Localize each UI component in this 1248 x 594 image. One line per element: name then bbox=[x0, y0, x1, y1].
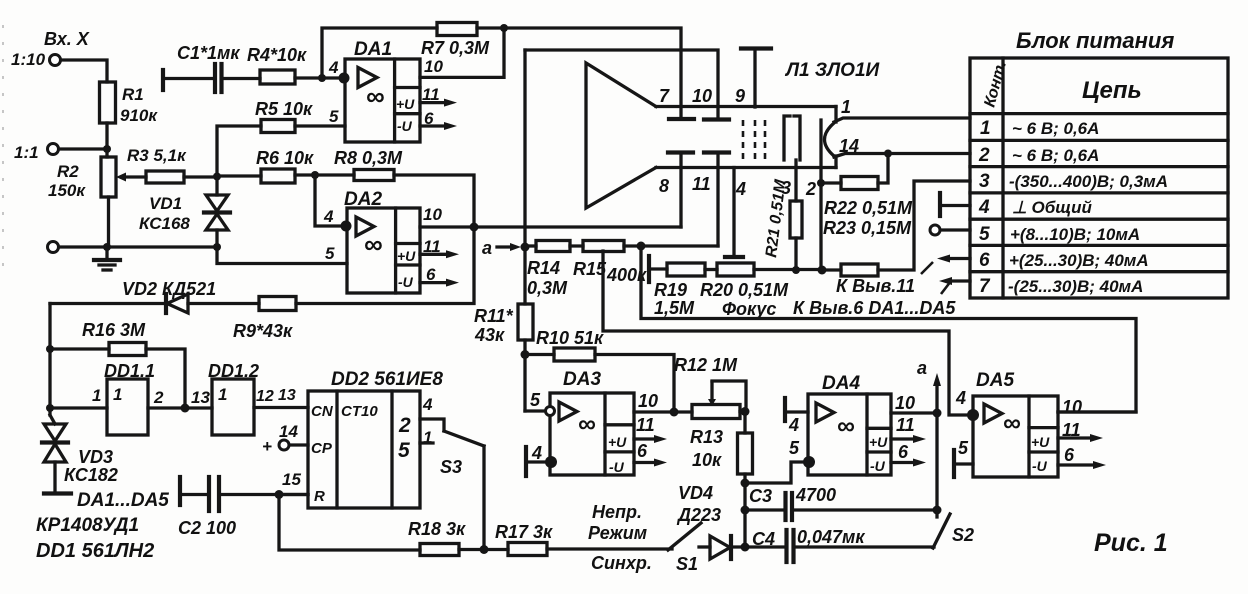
svg-text:С2 100: С2 100 bbox=[178, 518, 236, 538]
svg-text:1:10: 1:10 bbox=[11, 50, 46, 69]
svg-text:R2: R2 bbox=[57, 162, 79, 181]
svg-text:11: 11 bbox=[896, 415, 915, 435]
wire node down to DA2 pin 4 bbox=[315, 175, 347, 226]
resistor R7 0,3М bbox=[437, 23, 477, 36]
svg-text:10: 10 bbox=[638, 391, 658, 411]
svg-text:a: a bbox=[482, 238, 492, 258]
svg-text:Непр.: Непр. bbox=[592, 502, 642, 522]
svg-text:6: 6 bbox=[898, 442, 909, 462]
wire R16 right down to DD1.1 out bbox=[146, 349, 185, 408]
resistor R19 1,5М bbox=[649, 267, 667, 270]
svg-text:Режим: Режим bbox=[588, 523, 647, 543]
svg-text:-U: -U bbox=[397, 118, 413, 134]
svg-text:2: 2 bbox=[805, 179, 816, 199]
wire junction to plate 11 bbox=[641, 244, 718, 247]
svg-text:+U: +U bbox=[396, 96, 415, 112]
svg-text:10: 10 bbox=[424, 57, 443, 76]
svg-text:~ 6 В; 0,6А: ~ 6 В; 0,6А bbox=[1012, 146, 1099, 165]
resistor R13 10к bbox=[738, 433, 753, 474]
node junction C4/VD4 bbox=[741, 543, 750, 552]
svg-text:13: 13 bbox=[191, 388, 210, 407]
node a junction DA4 out bbox=[933, 409, 942, 418]
resistor R4* 10к bbox=[260, 70, 295, 84]
wire VD1 node to DA2 pin5 bbox=[217, 247, 347, 264]
svg-text:С1*1мк: С1*1мк bbox=[177, 43, 240, 63]
svg-text:CN: CN bbox=[311, 403, 334, 420]
resistor R22 0,51М bbox=[841, 177, 878, 190]
resistor R6 10к bbox=[217, 174, 261, 177]
wire 1:1 to rail bbox=[59, 147, 107, 150]
node junction VD1 bottom bbox=[213, 243, 221, 251]
resistor R5 10к bbox=[261, 120, 295, 133]
svg-text:2: 2 bbox=[153, 388, 164, 407]
svg-text:Фокус: Фокус bbox=[722, 299, 776, 319]
wire R2 wiper to R3 bbox=[122, 175, 146, 178]
svg-text:S2: S2 bbox=[952, 525, 974, 545]
svg-text:+U: +U bbox=[397, 248, 416, 264]
resistor R23 0,15М bbox=[841, 264, 878, 276]
svg-text:R20 0,51М: R20 0,51М bbox=[700, 280, 789, 300]
svg-text:К Выв.11: К Выв.11 bbox=[836, 276, 915, 296]
wire R9 right up to DA2 out node bbox=[296, 227, 474, 304]
svg-text:5: 5 bbox=[325, 244, 335, 263]
svg-text:Блок питания: Блок питания bbox=[1016, 28, 1174, 53]
svg-text:2: 2 bbox=[398, 414, 411, 437]
switch S1 blade bbox=[668, 523, 701, 550]
arrow row 7 supply bbox=[950, 279, 970, 282]
svg-text:6: 6 bbox=[979, 250, 990, 271]
svg-text:1: 1 bbox=[218, 385, 227, 404]
arrow row 6 supply bbox=[948, 257, 970, 260]
wire R2 bottom to ground wire bbox=[107, 197, 110, 247]
svg-text:5: 5 bbox=[958, 438, 969, 458]
resistor R16 3М bbox=[50, 347, 109, 350]
svg-text:R23 0,15М: R23 0,15М bbox=[823, 218, 912, 238]
resistor R11* 43к bbox=[518, 304, 533, 340]
svg-text:+: + bbox=[262, 437, 272, 456]
diode VD3 КС182 (symmetric zener) bbox=[50, 415, 55, 424]
svg-text:DD2 561ИЕ8: DD2 561ИЕ8 bbox=[331, 369, 443, 390]
wire left rail top bbox=[48, 304, 51, 416]
node junction R18/R17/S3 bbox=[480, 545, 489, 554]
power supply connector table bbox=[970, 58, 1228, 298]
svg-text:∞: ∞ bbox=[578, 410, 596, 438]
svg-text:-U: -U bbox=[609, 459, 625, 475]
svg-text:CP: CP bbox=[311, 440, 333, 457]
node junction R16 left bbox=[46, 345, 54, 353]
wire R15 wiper rail to DA5 pin 4 bbox=[603, 251, 967, 415]
svg-text:1: 1 bbox=[113, 385, 122, 404]
svg-text:R17 3к: R17 3к bbox=[495, 522, 553, 542]
node junction C3 right on S2 column bbox=[933, 506, 942, 515]
svg-text:4: 4 bbox=[788, 415, 799, 435]
node junction R4/R7 bbox=[318, 74, 326, 82]
wire junction up to R5 bbox=[217, 126, 261, 177]
svg-text:R: R bbox=[314, 488, 325, 505]
resistor R18 3к bbox=[420, 544, 459, 556]
svg-text:R12 1М: R12 1М bbox=[674, 355, 738, 375]
resistor R14 0,3М bbox=[525, 244, 536, 247]
heater cathode arc bbox=[825, 123, 835, 156]
svg-text:С3: С3 bbox=[749, 486, 772, 506]
svg-text:150к: 150к bbox=[48, 181, 86, 200]
svg-text:7: 7 bbox=[979, 276, 991, 297]
node junction C3 left bbox=[741, 506, 750, 515]
svg-text:DA1...DA5: DA1...DA5 bbox=[77, 490, 169, 511]
wire S3 down to R17/R18 node bbox=[482, 446, 485, 550]
leader dashes to rows 6,7 bbox=[921, 262, 933, 274]
wire to DA4 pin 5 bbox=[745, 462, 803, 483]
svg-text:910к: 910к bbox=[120, 106, 158, 125]
svg-text:7: 7 bbox=[659, 86, 670, 106]
svg-text:8: 8 bbox=[659, 176, 669, 196]
svg-text:11: 11 bbox=[636, 415, 655, 435]
svg-text:-U: -U bbox=[1032, 458, 1048, 474]
svg-text:VD2 КД521: VD2 КД521 bbox=[122, 279, 216, 299]
svg-text:R3 5,1к: R3 5,1к bbox=[127, 146, 187, 165]
wire R1 bottom bbox=[105, 123, 108, 157]
resistor R8 0,3М bbox=[354, 170, 394, 181]
svg-text:43к: 43к bbox=[474, 325, 505, 345]
svg-text:Л1 ЗЛО1И: Л1 ЗЛО1И bbox=[784, 60, 880, 81]
svg-text:4: 4 bbox=[422, 395, 433, 414]
node junction C2/R pin bbox=[275, 490, 284, 499]
svg-text:КС168: КС168 bbox=[139, 214, 190, 233]
switch S2 bbox=[933, 514, 950, 548]
node junction ground bbox=[103, 243, 111, 251]
svg-text:12: 12 bbox=[256, 388, 274, 405]
svg-text:5: 5 bbox=[398, 439, 410, 462]
wire R6 to R8 node bbox=[295, 173, 354, 176]
svg-text:14: 14 bbox=[279, 422, 298, 441]
svg-text:+(8...10)В; 10мА: +(8...10)В; 10мА bbox=[1010, 225, 1140, 244]
svg-text:S3: S3 bbox=[440, 457, 462, 477]
node junction R11/R10 bbox=[521, 350, 530, 359]
svg-text:3: 3 bbox=[979, 171, 990, 192]
svg-text:4700: 4700 bbox=[795, 485, 836, 505]
svg-text:5: 5 bbox=[979, 224, 990, 245]
svg-text:13: 13 bbox=[278, 387, 296, 404]
svg-text:-(25...30)В; 40мА: -(25...30)В; 40мА bbox=[1008, 277, 1143, 296]
diode VD1 КС168 (symmetric zener) bbox=[215, 177, 218, 196]
wire C2 node down to R18 bbox=[279, 495, 420, 551]
svg-text:CT10: CT10 bbox=[341, 403, 378, 420]
svg-text:VD1: VD1 bbox=[149, 194, 182, 213]
wire feedback rail DA5 out to R15 node bbox=[641, 246, 1136, 412]
svg-text:10: 10 bbox=[423, 205, 442, 224]
svg-text:Рис. 1: Рис. 1 bbox=[1094, 529, 1168, 557]
svg-text:R19: R19 bbox=[654, 280, 687, 300]
capacitor C1* 1мк bbox=[161, 70, 165, 90]
svg-text:4: 4 bbox=[955, 388, 966, 408]
resistor R2 150к (potentiometer) bbox=[101, 157, 116, 197]
svg-text:DA1: DA1 bbox=[354, 39, 392, 60]
svg-text:1: 1 bbox=[92, 386, 101, 405]
svg-text:0,3М: 0,3М bbox=[527, 278, 568, 298]
svg-text:К Выв.6 DA1...DA5: К Выв.6 DA1...DA5 bbox=[793, 298, 956, 318]
wire R17 to S1 contact bbox=[547, 547, 672, 550]
svg-text:Вх. Х: Вх. Х bbox=[44, 29, 90, 49]
svg-text:10: 10 bbox=[895, 393, 915, 413]
svg-text:2: 2 bbox=[978, 145, 990, 166]
node junction R6/R8/DA2pin4 bbox=[311, 171, 319, 179]
svg-text:1:1: 1:1 bbox=[14, 143, 39, 162]
svg-text:DA3: DA3 bbox=[563, 369, 601, 390]
wire vertical plate10/R11 column bbox=[523, 50, 526, 304]
svg-text:10: 10 bbox=[1062, 397, 1082, 417]
wire 1:10 to R1 top bbox=[61, 60, 107, 82]
svg-text:R5 10к: R5 10к bbox=[255, 99, 313, 119]
svg-text:4: 4 bbox=[323, 207, 334, 226]
svg-text:VD4: VD4 bbox=[678, 483, 713, 503]
svg-text:R16 3М: R16 3М bbox=[82, 320, 146, 340]
svg-text:-U: -U bbox=[398, 274, 414, 290]
svg-text:4: 4 bbox=[978, 197, 990, 218]
grid electrodes (dashed) bbox=[742, 120, 745, 160]
svg-text:9: 9 bbox=[735, 86, 745, 106]
wire R13 bottom column bbox=[743, 474, 746, 547]
terminal VD3 bottom bar bbox=[44, 491, 71, 495]
resistor R20 0,51М (focus potentiometer) bbox=[705, 268, 717, 271]
svg-text:R9*43к: R9*43к bbox=[233, 321, 293, 341]
node junction R22 top bbox=[884, 150, 892, 158]
svg-text:~ 6 В; 0,6А: ~ 6 В; 0,6А bbox=[1012, 119, 1099, 138]
wire R3 to junction bbox=[184, 175, 217, 178]
ground bbox=[105, 247, 108, 259]
svg-text:DD1 561ЛН2: DD1 561ЛН2 bbox=[36, 540, 154, 562]
svg-text:R1: R1 bbox=[122, 85, 144, 104]
svg-text:∞: ∞ bbox=[366, 81, 385, 111]
node junction DA2out/R8/R9 bbox=[470, 223, 479, 232]
svg-text:4: 4 bbox=[328, 58, 339, 77]
terminal common input bbox=[48, 242, 59, 253]
resistor R10 51к bbox=[525, 353, 554, 356]
svg-text:5: 5 bbox=[530, 390, 541, 410]
node junction a/R14 bbox=[521, 243, 530, 252]
wire R8 right down to DA2 output node bbox=[394, 175, 474, 227]
capacitor C2 100 bbox=[178, 477, 182, 505]
svg-text:+(25...30)В; 40мА: +(25...30)В; 40мА bbox=[1009, 251, 1149, 270]
svg-text:⊥ Общий: ⊥ Общий bbox=[1012, 198, 1093, 217]
switch S3 bbox=[444, 431, 484, 446]
svg-text:5: 5 bbox=[789, 438, 800, 458]
svg-text:4: 4 bbox=[531, 443, 542, 463]
svg-text:R14: R14 bbox=[527, 258, 560, 278]
node junction R21 bottom bbox=[792, 266, 800, 274]
svg-text:1: 1 bbox=[980, 118, 991, 139]
node junction R12 right/R13 bbox=[741, 407, 750, 416]
terminal row 4 common bar bbox=[938, 193, 942, 216]
svg-text:10к: 10к bbox=[692, 450, 722, 470]
anode electrodes bbox=[784, 116, 790, 160]
svg-text:КР1408УД1: КР1408УД1 bbox=[36, 515, 139, 536]
svg-text:R13: R13 bbox=[690, 427, 723, 447]
svg-text:1,5М: 1,5М bbox=[654, 298, 695, 318]
svg-text:-(350...400)В; 0,3мА: -(350...400)В; 0,3мА bbox=[1009, 172, 1168, 191]
svg-text:4: 4 bbox=[735, 179, 746, 199]
node junction R15/plate11 bbox=[637, 242, 646, 251]
svg-text:S1: S1 bbox=[676, 554, 698, 574]
node junction R16/DD1 bbox=[181, 404, 190, 413]
node junction R20/R23/pin2 bbox=[818, 266, 827, 275]
svg-text:1: 1 bbox=[841, 97, 851, 117]
resistor R9* 43к bbox=[259, 297, 296, 311]
svg-text:Синхр.: Синхр. bbox=[591, 553, 652, 573]
resistor R17 3к bbox=[508, 543, 547, 556]
svg-text:5: 5 bbox=[329, 107, 339, 126]
node junction R1/R2 bbox=[103, 145, 111, 153]
wire R7 node to plate 7 bbox=[504, 28, 681, 119]
svg-text:0,047мк: 0,047мк bbox=[797, 527, 865, 547]
svg-text:6: 6 bbox=[637, 441, 648, 461]
resistor R3 5,1к bbox=[146, 171, 184, 183]
svg-text:R8 0,3М: R8 0,3М bbox=[334, 148, 403, 168]
resistor R15 400к (potentiometer) bbox=[570, 244, 583, 247]
svg-text:DA5: DA5 bbox=[976, 370, 1014, 391]
svg-text:VD3: VD3 bbox=[78, 447, 113, 467]
svg-text:+U: +U bbox=[869, 434, 888, 450]
wire R10 right to DA3 pin10 node bbox=[595, 355, 674, 413]
svg-text:∞: ∞ bbox=[1003, 409, 1021, 437]
svg-text:10: 10 bbox=[692, 86, 712, 106]
svg-text:a: a bbox=[917, 358, 927, 378]
terminal focus electrode bar bbox=[647, 256, 651, 282]
wire R23 right up to table row 3 bbox=[878, 181, 970, 270]
resistor R21 0,51М bbox=[790, 201, 802, 238]
wire S2 column from node a bbox=[935, 413, 938, 517]
svg-text:Цепь: Цепь bbox=[1082, 77, 1142, 104]
wire bottom common bbox=[59, 245, 217, 248]
svg-text:R22 0,51М: R22 0,51М bbox=[824, 198, 913, 218]
node junction DD1.1 input bbox=[46, 404, 54, 412]
resistor R1 910к bbox=[100, 82, 116, 123]
svg-text:R4*10к: R4*10к bbox=[247, 45, 307, 65]
svg-text:R11*: R11* bbox=[474, 306, 514, 326]
svg-text:Д223: Д223 bbox=[676, 505, 721, 525]
svg-text:15: 15 bbox=[282, 470, 301, 489]
wire VD2 row bbox=[50, 302, 166, 305]
node junction R3/R5/R6/VD1 bbox=[213, 173, 221, 181]
svg-text:11: 11 bbox=[692, 174, 711, 194]
wire R5 to DA1 pin5 bbox=[295, 124, 345, 127]
svg-text:6: 6 bbox=[1064, 445, 1075, 465]
svg-text:∞: ∞ bbox=[364, 229, 383, 259]
svg-text:R7 0,3М: R7 0,3М bbox=[421, 38, 490, 58]
terminal row 5 circle bbox=[930, 225, 940, 235]
wire junction up to R7 bbox=[322, 28, 437, 78]
svg-text:R10 51к: R10 51к bbox=[536, 328, 604, 348]
svg-text:DA4: DA4 bbox=[822, 373, 860, 394]
svg-text:R18 3к: R18 3к bbox=[408, 519, 466, 539]
svg-text:+U: +U bbox=[608, 434, 627, 450]
wire R4 to DA1 pin4 bbox=[295, 76, 345, 79]
svg-text:-U: -U bbox=[870, 458, 886, 474]
svg-text:+U: +U bbox=[1031, 434, 1050, 450]
node junction R7 right bbox=[500, 24, 508, 32]
svg-text:КС182: КС182 bbox=[64, 465, 118, 485]
node junction R13/C3/DA4pin5 bbox=[741, 479, 750, 488]
svg-text:R6 10к: R6 10к bbox=[256, 148, 314, 168]
svg-text:∞: ∞ bbox=[837, 412, 855, 440]
